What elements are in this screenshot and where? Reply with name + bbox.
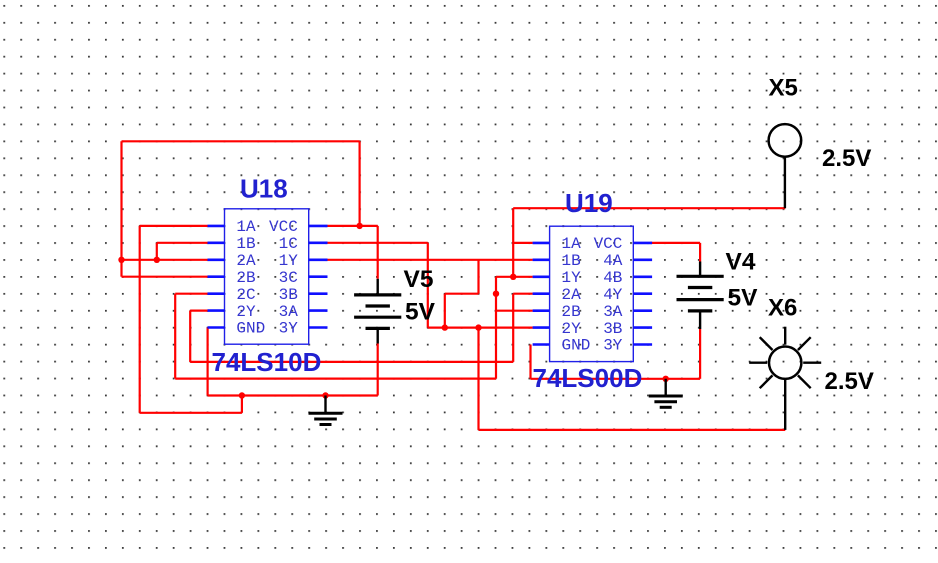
svg-text:3B: 3B xyxy=(279,286,298,304)
svg-text:2Y: 2Y xyxy=(562,320,582,338)
wire U19 gnd net horizontal xyxy=(531,378,701,380)
U18 pin stub right row 2 (1C) xyxy=(309,242,328,245)
wire X6 branch vertical xyxy=(477,328,479,430)
svg-text:4B: 4B xyxy=(603,269,622,287)
U18 pin stub left row 7 (GND) xyxy=(208,326,225,329)
wire X5 top horizontal xyxy=(513,207,785,209)
wire 1C to U19 2Y horizontal xyxy=(428,327,533,329)
U18 pin stub right row 6 (3A) xyxy=(309,309,328,312)
wire U18 gnd net horizontal xyxy=(208,394,378,396)
wire X5 drop to U19 1A/1Y xyxy=(512,208,514,277)
svg-text:74LS00D: 74LS00D xyxy=(533,363,643,393)
svg-text:U18: U18 xyxy=(240,174,288,204)
svg-text:5V: 5V xyxy=(405,299,436,326)
U18 pin stub right row 7 (3Y) xyxy=(309,326,328,329)
U19 pin stub right row 6 (3B) xyxy=(633,326,652,329)
U18 pin stub right row 4 (3C) xyxy=(309,275,328,278)
X6 lead wire xyxy=(784,379,786,430)
wire U19 2B row xyxy=(496,310,533,312)
svg-text:2C: 2C xyxy=(236,286,255,304)
indicator X6 lamp circle (lit) xyxy=(749,327,821,389)
U18 pin stub right row 5 (3B) xyxy=(309,292,328,295)
U18 pin stub right row 1 (VCC) xyxy=(309,225,328,228)
junction VCC-U18 xyxy=(356,223,362,229)
wire U18 VCC row xyxy=(328,225,378,227)
junction gnd-symbol-2 xyxy=(663,376,669,382)
wire V5 top vertical xyxy=(377,226,379,279)
svg-text:V5: V5 xyxy=(404,266,434,293)
junction feedback-2Y xyxy=(442,324,448,330)
svg-text:1B: 1B xyxy=(562,252,581,270)
U19 pin stub left row 5 (2B) xyxy=(533,309,550,312)
U19 pin stub right row 3 (4B) xyxy=(633,275,652,278)
svg-text:3B: 3B xyxy=(603,320,622,338)
svg-text:1Y: 1Y xyxy=(562,269,582,287)
X5 lead wire xyxy=(784,157,786,208)
ground symbol GND2 xyxy=(649,379,683,408)
wire feedback drop to 2Y net xyxy=(444,294,446,328)
wire U19 GND pin drop xyxy=(529,345,531,379)
svg-text:2A: 2A xyxy=(562,286,582,304)
junction 1A-gnd xyxy=(239,392,245,398)
wire 2B row to pin xyxy=(122,276,208,278)
battery V4 xyxy=(677,262,724,330)
U19 pin stub right row 2 (4A) xyxy=(633,258,652,261)
wire U19 VCC row xyxy=(650,242,700,244)
U18 pin stub left row 2 (1B) xyxy=(208,242,225,245)
svg-text:3A: 3A xyxy=(603,303,623,321)
svg-text:1A: 1A xyxy=(236,218,256,236)
wire 2C drop vertical xyxy=(174,294,176,379)
wire 1C drop vertical xyxy=(427,243,429,328)
U19 pin stub right row 1 (VCC) xyxy=(633,242,652,245)
svg-text:3Y: 3Y xyxy=(279,320,299,338)
wire U18 2C row xyxy=(175,293,207,295)
U18 pin stub left row 3 (2A) xyxy=(208,258,225,261)
U19 pin stub right row 5 (3A) xyxy=(633,309,652,312)
wire U18 1Y to U19 1B long xyxy=(328,259,533,261)
svg-text:1B: 1B xyxy=(236,235,255,253)
svg-text:3C: 3C xyxy=(279,269,298,287)
wire node vcc-net left vertical 2A-2B xyxy=(120,260,122,277)
U19 pin stub right row 7 (3Y) xyxy=(633,343,652,346)
svg-text:74LS10D: 74LS10D xyxy=(212,347,322,377)
junction X5net-mid xyxy=(493,291,499,297)
svg-text:GND: GND xyxy=(236,320,265,338)
wire U19 2A row xyxy=(513,293,533,295)
svg-text:V4: V4 xyxy=(726,249,756,276)
svg-text:U19: U19 xyxy=(565,188,613,218)
indicator X5 lamp circle xyxy=(769,124,802,157)
svg-text:1Y: 1Y xyxy=(279,252,299,270)
wire top loop left vertical xyxy=(120,141,122,259)
wire 1B row to pin xyxy=(157,242,208,244)
wire U18 2Y drop vertical xyxy=(189,311,191,362)
wire U18 GND pin drop xyxy=(207,328,209,396)
svg-text:4A: 4A xyxy=(603,252,623,270)
junction 1B-2A xyxy=(154,257,160,263)
wire U19 1Y row xyxy=(496,276,533,278)
wire top loop right vertical xyxy=(359,141,361,226)
svg-text:1A: 1A xyxy=(562,235,582,253)
wire U19 1A row xyxy=(513,242,533,244)
svg-text:X6: X6 xyxy=(768,295,797,322)
svg-text:VCC: VCC xyxy=(594,235,623,253)
IC U19 body xyxy=(550,226,634,361)
svg-text:X5: X5 xyxy=(769,75,798,102)
svg-text:1C: 1C xyxy=(279,235,298,253)
wire U18 2Y row xyxy=(190,310,207,312)
junction X6-branch xyxy=(475,324,481,330)
junction 2A-left xyxy=(118,257,124,263)
ground symbol GND1 xyxy=(309,396,343,425)
svg-text:5V: 5V xyxy=(728,285,759,312)
svg-text:GND: GND xyxy=(562,337,591,355)
wire U18 2Y to U19 2A horizontal xyxy=(190,361,513,363)
U19 pin stub left row 3 (1Y) xyxy=(533,275,550,278)
svg-text:2.5V: 2.5V xyxy=(825,368,874,395)
wire feedback vertical upper xyxy=(477,260,479,294)
U19 pin stub left row 1 (1A) xyxy=(533,242,550,245)
svg-text:2B: 2B xyxy=(562,303,581,321)
svg-text:3A: 3A xyxy=(279,303,299,321)
U18 pin stub left row 6 (2Y) xyxy=(208,309,225,312)
U19 pin stub left row 6 (2Y) xyxy=(533,326,550,329)
U19 pin stub left row 7 (GND) xyxy=(533,343,550,346)
svg-text:2B: 2B xyxy=(236,269,255,287)
svg-text:2A: 2A xyxy=(236,252,256,270)
wire 1A bottom horizontal xyxy=(140,412,242,414)
wire feedback jog horizontal xyxy=(445,293,479,295)
svg-text:3Y: 3Y xyxy=(603,337,623,355)
U18 pin stub left row 5 (2C) xyxy=(208,292,225,295)
junction U19-1Y xyxy=(510,274,516,280)
wire V4 bottom vertical xyxy=(699,329,701,379)
U19 pin stub right row 4 (4Y) xyxy=(633,292,652,295)
junction gnd-symbol-1 xyxy=(322,392,328,398)
svg-text:2Y: 2Y xyxy=(236,303,256,321)
wire 1A row to pin xyxy=(140,225,208,227)
wire U19 2A drop vertical xyxy=(512,294,514,362)
U18 pin stub right row 3 (1Y) xyxy=(309,258,328,261)
svg-text:4Y: 4Y xyxy=(603,286,623,304)
U19 pin stub left row 2 (1B) xyxy=(533,258,550,261)
wire 1A left vertical xyxy=(139,226,141,413)
svg-text:2.5V: 2.5V xyxy=(822,145,871,172)
wire X6 bottom horizontal xyxy=(479,429,786,431)
IC U18 body xyxy=(225,209,309,344)
wire 1A riser to gnd net xyxy=(241,396,243,413)
wire V4 top vertical xyxy=(699,243,701,262)
wire 2A row to pin xyxy=(122,259,208,261)
wire U18 1C row xyxy=(328,242,428,244)
svg-text:VCC: VCC xyxy=(269,218,298,236)
wire X5 net vertical mid xyxy=(495,277,497,379)
wire 1B drop vertical xyxy=(156,243,158,260)
U19 pin stub left row 4 (2A) xyxy=(533,292,550,295)
U18 pin stub left row 1 (1A) xyxy=(208,225,225,228)
wire top loop horizontal xyxy=(122,140,360,142)
U18 pin stub left row 4 (2B) xyxy=(208,275,225,278)
battery V5 xyxy=(354,279,401,344)
wire 2C long bottom horizontal xyxy=(175,378,496,380)
wire V5 bottom vertical xyxy=(377,344,379,396)
